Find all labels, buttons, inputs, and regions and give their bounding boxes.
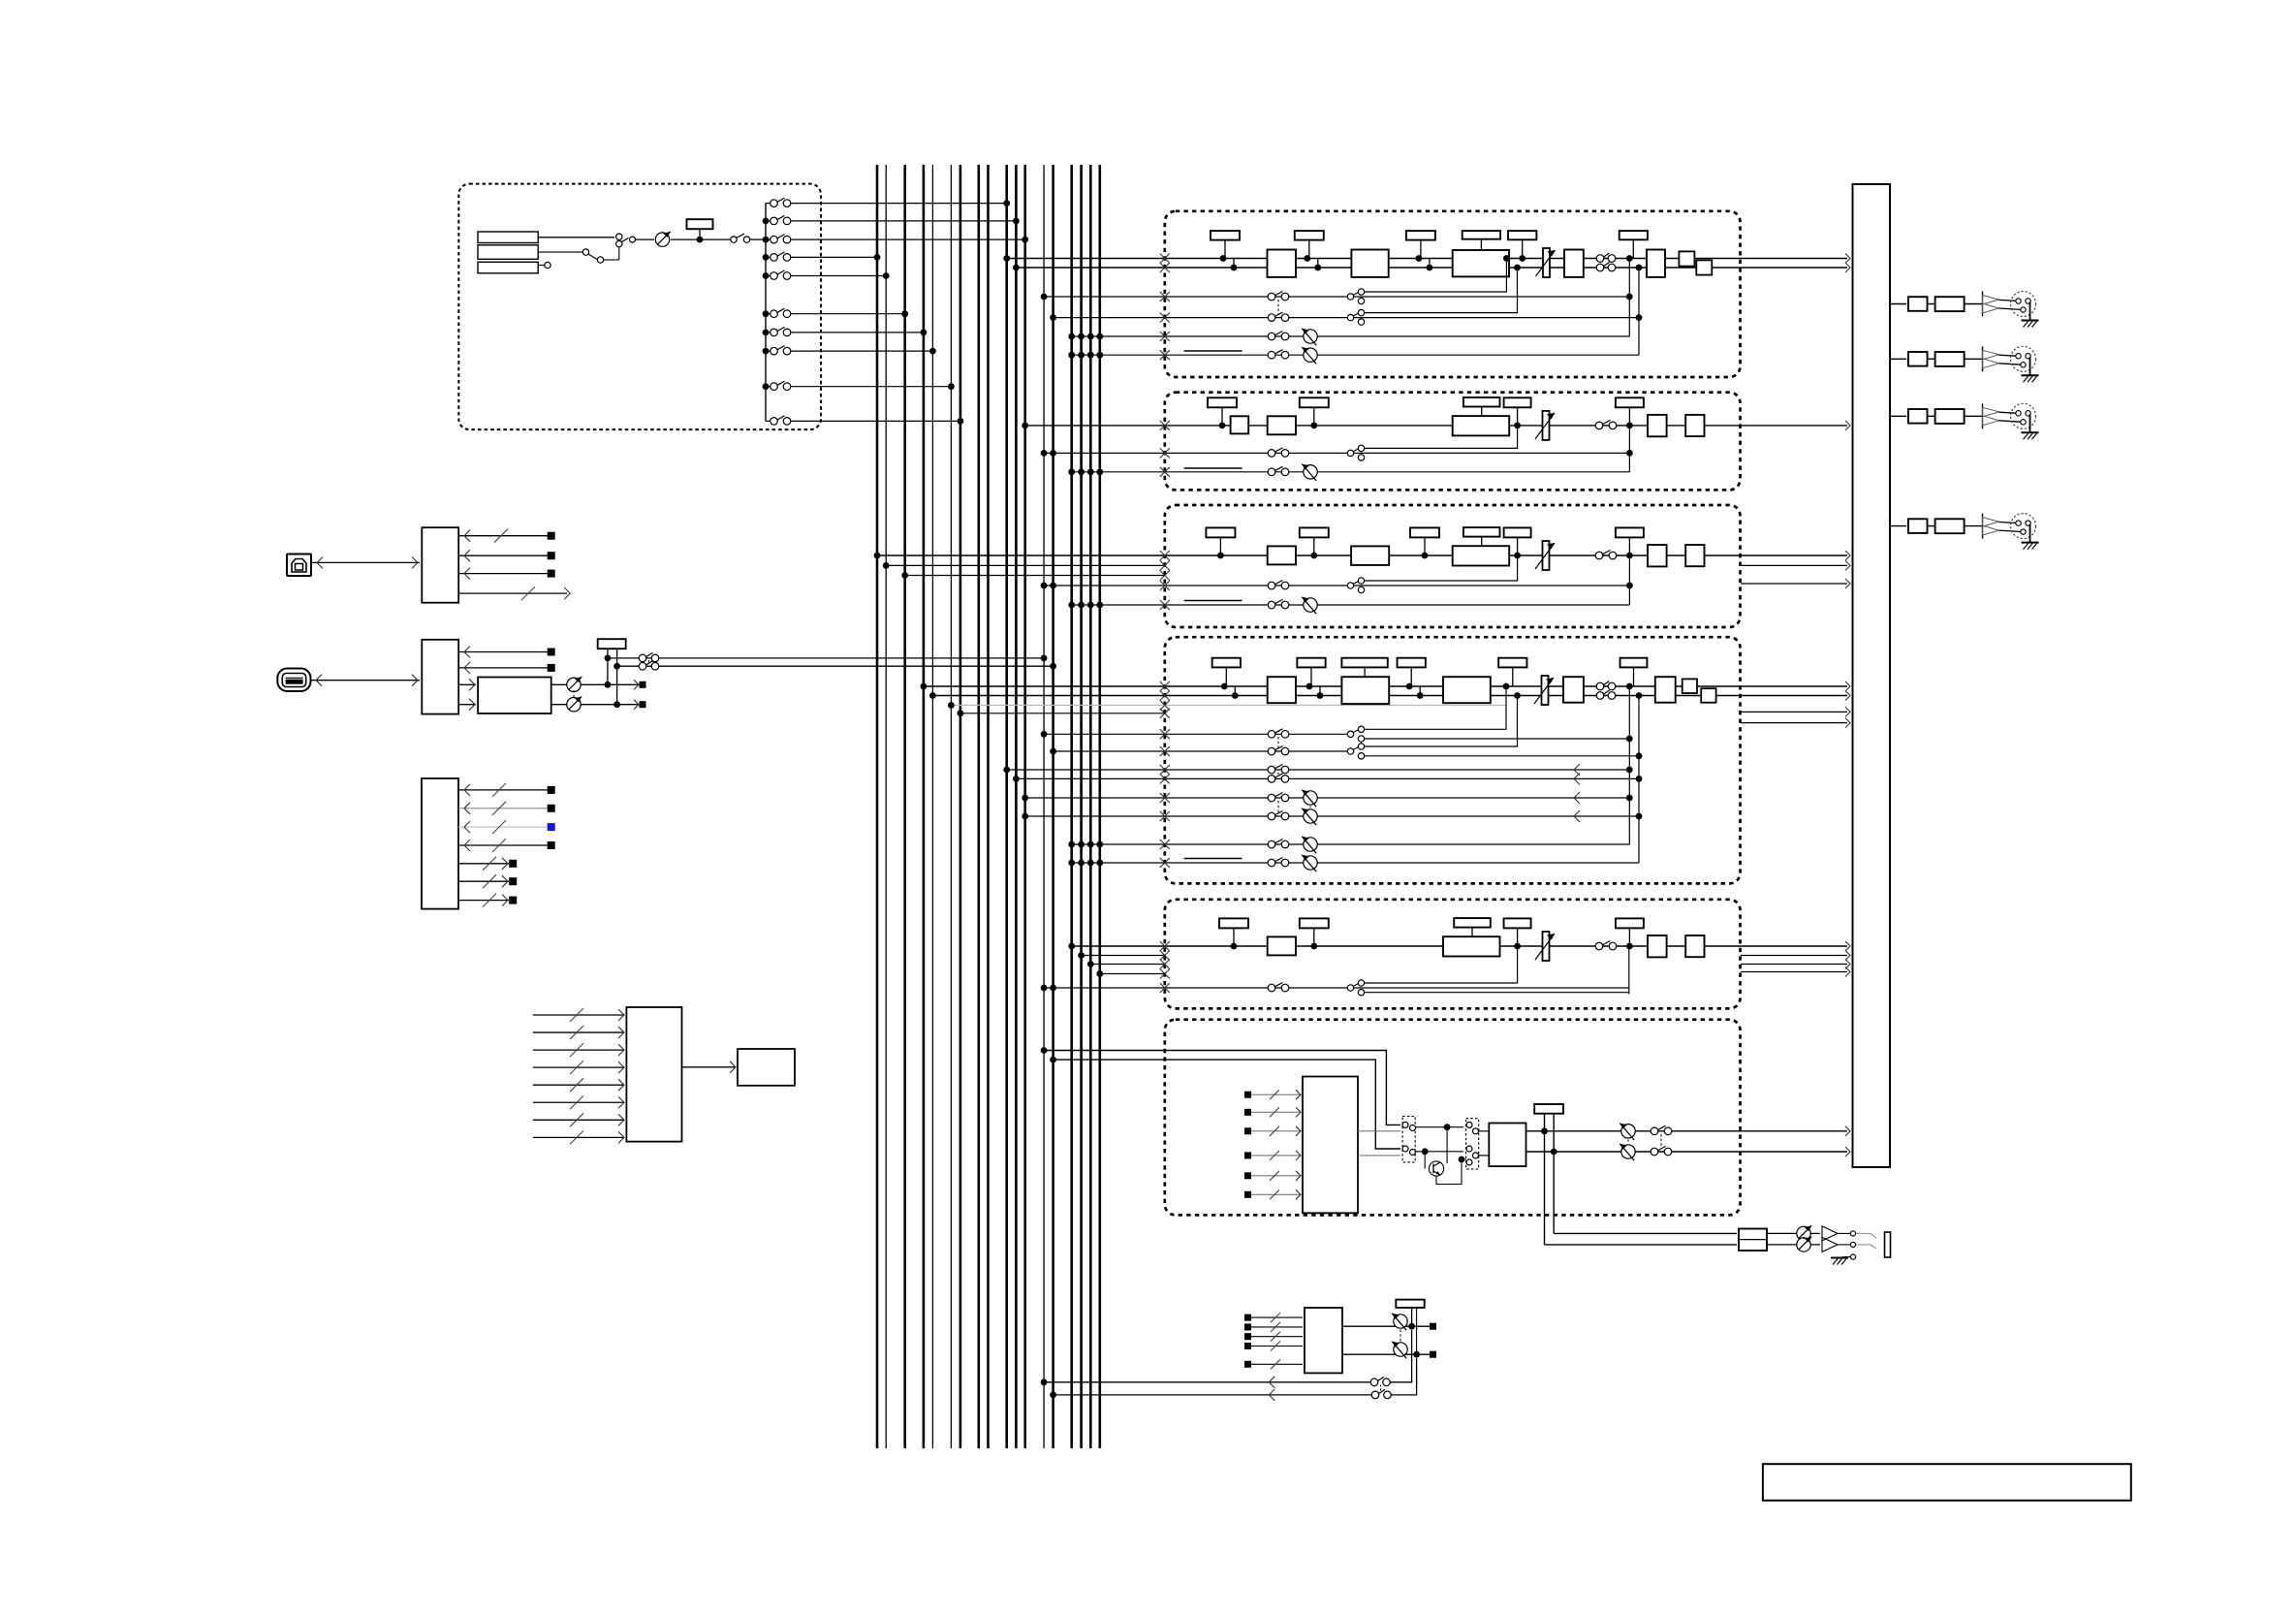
test point T xyxy=(1616,527,1644,537)
fader F1 xyxy=(1543,248,1550,277)
output driver 1 xyxy=(1982,292,1984,317)
collector vertical wire xyxy=(765,204,767,422)
switch strip6 b xyxy=(1651,1148,1658,1156)
wire U3 out R xyxy=(551,704,643,706)
wire strip4 auxA2 xyxy=(1054,750,1350,752)
block DSP xyxy=(1453,250,1509,276)
test point T xyxy=(1300,527,1329,537)
pot U9 a xyxy=(1394,1315,1407,1328)
wire T2 stem b xyxy=(616,649,618,704)
block OUT1 xyxy=(1648,545,1667,566)
pot U9 b xyxy=(1394,1343,1407,1356)
hp jack xyxy=(1885,1232,1891,1257)
switch S3 xyxy=(639,654,646,662)
fader F4 xyxy=(1542,676,1549,705)
switch strip4 A sw2 xyxy=(1268,747,1275,755)
wire bar to out 4 xyxy=(1890,525,1906,527)
wire strip3 main xyxy=(877,555,1847,556)
block DSP xyxy=(1453,546,1510,565)
output pot P3 xyxy=(567,698,581,712)
switch strip5 branch sw xyxy=(1347,985,1353,991)
wire strip4 auxB1 xyxy=(1007,769,1630,771)
wire strip5 dropper xyxy=(1628,946,1630,994)
wire T6 stem b xyxy=(1553,1114,1555,1234)
switch strip4 A sw1 xyxy=(1268,731,1275,739)
output pot P2 xyxy=(567,678,581,691)
switch strip3 aux sw xyxy=(1268,582,1275,589)
wire selector to level pot xyxy=(636,238,654,240)
hp pot b xyxy=(1797,1238,1810,1252)
wire U7 out 1 xyxy=(1358,1130,1400,1132)
block OUT xyxy=(1564,250,1584,277)
switch S4 xyxy=(639,662,646,670)
label underline strip4 xyxy=(1184,858,1242,860)
wire row 3 to bus xyxy=(791,238,1025,240)
dashed box monitor strip 6 xyxy=(1165,1020,1741,1216)
test point T xyxy=(1620,658,1648,668)
wire bar to out 1 xyxy=(1890,303,1906,305)
wire strip4 branch dn2 xyxy=(1365,755,1639,757)
wire strip2 pan xyxy=(1072,471,1630,473)
wire U2 out 2 xyxy=(458,667,550,669)
switch strip4 B sw2 xyxy=(1268,776,1275,783)
wire strip5 thru2 left xyxy=(1090,964,1165,966)
control block U4 xyxy=(422,778,458,909)
switch S pair strip4 xyxy=(1596,682,1604,690)
DAC U3 xyxy=(478,678,551,714)
wire strip1 dropper a xyxy=(1628,259,1630,337)
wire strip1 main R xyxy=(1016,267,1847,269)
switch return L xyxy=(1370,1378,1378,1386)
wire strip4 auxC2 xyxy=(1025,815,1639,817)
wire U1 out 2 xyxy=(458,555,550,556)
wire strip3 branch up xyxy=(1365,555,1518,581)
wire hp tip xyxy=(1838,1232,1850,1234)
test point T1 xyxy=(687,219,713,229)
wire U5 in 7 xyxy=(533,1119,624,1121)
mute transistor Q1 xyxy=(1429,1161,1443,1176)
wire U9 in 4 xyxy=(1248,1346,1304,1347)
test point T xyxy=(1406,231,1435,240)
test point T xyxy=(1616,397,1644,407)
wire strip4 pan L xyxy=(1072,843,1630,845)
test point T6 wide xyxy=(1534,1104,1563,1114)
wire bus V11 xyxy=(1015,165,1018,1448)
test point T xyxy=(1212,658,1241,668)
wire strip5 branch up xyxy=(1365,946,1518,983)
test point T wide xyxy=(1463,397,1500,407)
wire bus V3 xyxy=(903,165,906,1448)
test point T wide xyxy=(1454,918,1491,928)
test point T wide xyxy=(1463,527,1500,537)
dashed box input selector xyxy=(458,184,821,430)
wire U4 io 4 xyxy=(458,844,550,846)
wire U5 in 1 xyxy=(533,1014,624,1016)
switch strip4 B sw1 xyxy=(1268,766,1275,774)
source block R3 xyxy=(478,262,538,273)
test point T xyxy=(1398,658,1426,668)
wire strip4 auxC1 xyxy=(1025,797,1630,799)
wire strip3 dropper xyxy=(1628,555,1630,605)
wire U9 in 2 xyxy=(1248,1326,1304,1328)
wire out 3 b xyxy=(1965,415,1983,417)
wire headphone L xyxy=(1554,1232,1737,1234)
output driver 3 xyxy=(1982,403,1984,428)
switch S xyxy=(1595,552,1603,559)
test point T xyxy=(1498,658,1526,668)
wire strip6 in R xyxy=(1054,1060,1400,1149)
wire U2 to U3 b xyxy=(458,704,476,706)
wire strip4 branch up2 xyxy=(1365,696,1518,747)
wire sw6a out1 xyxy=(1415,1126,1463,1128)
wire U4 io 1 xyxy=(458,789,550,791)
block out filter 4 xyxy=(1935,519,1965,533)
wire row 2 to bus xyxy=(791,220,1017,222)
wire driver to xlr 3 hot xyxy=(1999,412,2019,413)
test point T xyxy=(1620,231,1648,239)
wire sw6b out1 xyxy=(1479,1130,1490,1132)
test point T xyxy=(1504,397,1531,407)
wire U7 in 2 xyxy=(1248,1111,1302,1113)
test point T xyxy=(1616,918,1644,928)
wire strip3 pan xyxy=(1072,604,1630,606)
wire bar to out 2 xyxy=(1890,358,1906,360)
switch strip4 A branch sw1 xyxy=(1347,731,1353,737)
test point T xyxy=(1300,397,1329,407)
wire strip5 aux xyxy=(1044,987,1629,989)
switch strip2 pan sw xyxy=(1268,468,1275,476)
wire T9 stem b xyxy=(1416,1308,1418,1354)
wire R1 output xyxy=(538,237,614,238)
wire sw6b out2 xyxy=(1479,1155,1490,1157)
wire U9 in 1 xyxy=(1248,1316,1304,1318)
wire hp amp out L xyxy=(1767,1232,1820,1234)
block comp xyxy=(1443,677,1491,703)
switch box SW6a xyxy=(1402,1117,1415,1162)
wire U9 out B xyxy=(1342,1353,1430,1355)
wire strip2 main xyxy=(1025,425,1847,427)
wire return L xyxy=(1044,1381,1372,1383)
wire T2 stem a xyxy=(607,649,609,684)
wire strip4 branch dn1 xyxy=(1365,738,1629,740)
wire to collector xyxy=(750,238,766,240)
switch strip1 branch sw2 xyxy=(1347,314,1353,320)
wire driver to xlr 3 cold xyxy=(1999,421,2024,423)
wire strip1 dropper b xyxy=(1638,268,1640,355)
wire bus V14 xyxy=(1052,165,1054,1448)
codec U2 xyxy=(422,640,458,714)
XLR output connector 2 xyxy=(2011,346,2036,371)
fader F xyxy=(1543,541,1550,570)
XLR output connector 1 xyxy=(2011,292,2036,317)
XLR output connector 3 xyxy=(2011,403,2036,428)
switch strip4 A branch sw2 xyxy=(1347,748,1353,754)
block EQ2 xyxy=(1351,250,1388,277)
wire bus V10 xyxy=(1005,165,1008,1448)
switch S xyxy=(1595,942,1603,950)
wire U1 out 4 xyxy=(458,592,567,594)
wire U7 in 4 xyxy=(1248,1155,1302,1157)
hp driver b xyxy=(1822,1237,1838,1252)
wire bus V18 xyxy=(1099,165,1102,1448)
switch strip6 a xyxy=(1651,1127,1658,1135)
wire headphone R xyxy=(1545,1244,1738,1246)
wire strip1 branch up1 xyxy=(1365,259,1506,293)
USB-A connector J2 xyxy=(277,669,310,692)
wire strip6 in L xyxy=(1044,1051,1400,1125)
wire strip4 auxA1 xyxy=(1044,733,1350,735)
wire pot to test point xyxy=(671,238,732,240)
amp block U8 xyxy=(1489,1124,1525,1167)
block out relay 1 xyxy=(1908,297,1928,311)
pan pot strip6 a xyxy=(1621,1125,1635,1138)
wire out 4 a xyxy=(1928,525,1935,527)
block out filter 2 xyxy=(1935,352,1965,366)
row switch SW10 xyxy=(766,420,771,422)
fader F xyxy=(1543,411,1550,440)
block small a xyxy=(1679,251,1694,266)
wire strip1 branch up2 xyxy=(1365,268,1518,313)
switch strip1 branch sw1 xyxy=(1347,294,1353,300)
block out relay 4 xyxy=(1908,519,1928,533)
wire row 10 to bus xyxy=(791,420,960,422)
wire strip4 pan R xyxy=(1072,862,1639,864)
wire strip1 pan R xyxy=(1072,354,1639,356)
wire strip4 exit4 xyxy=(1741,722,1847,724)
wire bus V12 xyxy=(1023,165,1026,1448)
wire U5 in 5 xyxy=(533,1084,624,1086)
wire bus V13 xyxy=(1043,165,1045,1448)
switch strip4 D sw1 xyxy=(1268,840,1275,848)
scan block U5 xyxy=(626,1007,681,1142)
selector switch S1 xyxy=(616,234,622,239)
test point T wide xyxy=(1463,231,1500,239)
pan pot strip4 C b xyxy=(1304,809,1317,823)
wire bus V4 xyxy=(923,165,926,1448)
block EQ1 xyxy=(1268,936,1296,955)
wire strip4 gray monitor xyxy=(951,705,1505,707)
wire strip4 auxB2 xyxy=(1016,777,1639,779)
wire strip5 thru2 right xyxy=(1741,964,1847,966)
DAC block U7 xyxy=(1303,1077,1358,1214)
USB interface U1 xyxy=(422,527,458,603)
switch strip5 aux sw xyxy=(1268,984,1275,992)
row switch SW1 xyxy=(766,203,771,205)
test point T xyxy=(1211,231,1240,240)
row switch SW2 xyxy=(766,220,771,222)
dashed box channel strip 4 xyxy=(1165,637,1741,883)
fader F xyxy=(1543,932,1550,961)
test point T xyxy=(1300,918,1329,928)
switch S xyxy=(1595,422,1603,429)
wire usb R to bus xyxy=(617,665,1054,667)
wire U7 out 2 xyxy=(1358,1155,1400,1157)
wire U5 in 8 xyxy=(533,1136,624,1138)
test point T xyxy=(1504,918,1531,928)
wire out 1 a xyxy=(1928,303,1935,305)
pan pot strip4 D b xyxy=(1304,856,1317,870)
wire row 6 to bus xyxy=(791,313,905,315)
test point T xyxy=(1297,658,1325,668)
wire strip4 main L xyxy=(924,685,1847,687)
block out relay 2 xyxy=(1908,352,1928,366)
wire out 2 a xyxy=(1928,358,1935,360)
wire driver to xlr 4 cold xyxy=(1999,530,2024,532)
wire Q1 collector xyxy=(1446,1127,1448,1163)
dashed box channel strip 5 xyxy=(1165,900,1741,1009)
block small b xyxy=(1696,260,1712,274)
wire U2 to U3 a xyxy=(458,683,476,685)
wire strip5 thru3 left xyxy=(1100,973,1165,975)
wire J1 to U1 xyxy=(311,561,420,563)
wire bus V5 xyxy=(931,165,933,1448)
wire U4 out 7 xyxy=(458,900,509,902)
wire J2 to U2 xyxy=(310,680,420,681)
wire out 4 b xyxy=(1965,525,1983,527)
block small b xyxy=(1701,688,1715,703)
wire strip4 dropper b xyxy=(1638,696,1640,864)
wire T6 stem a xyxy=(1544,1114,1546,1245)
output driver 2 xyxy=(1982,346,1984,371)
row switch SW6 xyxy=(766,313,771,315)
wire U4 io 3 xyxy=(458,826,550,828)
wire strip5 main xyxy=(1072,945,1847,947)
switch box SW6b xyxy=(1466,1119,1479,1169)
wire strip3 thru right xyxy=(1741,564,1847,566)
wire U9 in 3 xyxy=(1248,1336,1304,1338)
wire driver to xlr 4 hot xyxy=(1999,523,2019,523)
row switch SW9 xyxy=(766,386,771,388)
wire strip4 stub xyxy=(960,713,1165,714)
wire U9 in 5 xyxy=(1248,1363,1304,1365)
block EQ2 xyxy=(1351,546,1389,565)
headphone amp block xyxy=(1739,1229,1767,1252)
wire R3 stub xyxy=(538,265,544,267)
wire row 8 to bus xyxy=(791,350,933,352)
block small xyxy=(1231,416,1249,433)
source block R1 xyxy=(478,232,538,243)
wire U4 io 2 xyxy=(458,808,550,809)
wire driver to xlr 2 cold xyxy=(1999,364,2024,365)
wire U7 in 6 xyxy=(1248,1193,1302,1195)
wire bus V9 xyxy=(987,165,990,1448)
wire hp amp out R xyxy=(1767,1244,1820,1246)
switch return R xyxy=(1371,1391,1379,1399)
dashed box channel strip 1 xyxy=(1165,211,1741,377)
wire Q1 emitter xyxy=(1436,1159,1466,1185)
switch strip3 pan sw xyxy=(1268,601,1275,609)
pan pot strip4 D a xyxy=(1304,838,1317,851)
wire bus V8 xyxy=(977,165,980,1448)
wire strip4 main R xyxy=(932,695,1847,697)
wire U3 out L xyxy=(551,683,643,685)
block OUT2 xyxy=(1685,415,1704,436)
switch strip4 C sw1 xyxy=(1268,794,1275,802)
block EQ1 xyxy=(1268,677,1296,703)
hp pot a xyxy=(1797,1226,1810,1240)
wire R2 to switch xyxy=(538,251,582,253)
wire out 2 b xyxy=(1965,358,1983,360)
wire U7 in 5 xyxy=(1248,1175,1302,1177)
pan pot strip1 a xyxy=(1304,330,1317,343)
wire Q1 base xyxy=(1424,1152,1426,1169)
row switch SW5 xyxy=(766,275,771,277)
wire row 5 to bus xyxy=(791,275,887,277)
dashed box channel strip 2 xyxy=(1165,393,1741,491)
pan pot strip2 xyxy=(1304,465,1317,479)
wire strip6 out R xyxy=(1526,1151,1848,1153)
wire driver to xlr 1 cold xyxy=(1999,308,2024,310)
wire row 4 to bus xyxy=(791,256,878,258)
row switch SW8 xyxy=(766,350,771,352)
block big DSP xyxy=(1341,677,1389,704)
block U6 xyxy=(738,1049,795,1086)
block EQ1 xyxy=(1268,546,1296,564)
wire return R xyxy=(1054,1394,1373,1396)
pan pot strip1 b xyxy=(1304,348,1317,362)
wire strip4 branch up1 xyxy=(1365,686,1506,729)
block out relay 3 xyxy=(1908,409,1928,424)
wire strip1 pan L xyxy=(1072,335,1630,337)
wire strip1 aux2 xyxy=(1054,317,1639,319)
wire U7 in 1 xyxy=(1248,1093,1302,1095)
wire U1 out 3 xyxy=(458,573,550,575)
block OUT1 xyxy=(1648,415,1667,436)
wire U2 out 1 xyxy=(458,651,550,653)
wire strip3 stub xyxy=(905,575,1165,577)
block OUT2 xyxy=(1685,935,1704,957)
wire U5 in 3 xyxy=(533,1049,624,1051)
block OUT1 xyxy=(1648,935,1667,957)
test point T xyxy=(1295,231,1324,240)
row switch SW7 xyxy=(766,332,771,333)
test point T xyxy=(1219,918,1248,928)
block U9 xyxy=(1305,1308,1342,1373)
USB-B connector J1 xyxy=(287,555,311,577)
wire U4 out 5 xyxy=(458,863,509,865)
switch S2 xyxy=(731,237,737,242)
wire strip1 main L xyxy=(1007,258,1847,260)
row switch SW4 xyxy=(766,256,771,258)
switch strip1 pan sw1 xyxy=(1268,333,1275,340)
block small a xyxy=(1683,679,1697,693)
test point T xyxy=(1508,231,1536,239)
XLR output connector 4 xyxy=(2011,514,2036,539)
wire bus V7 xyxy=(959,165,962,1448)
block EQ1 xyxy=(1268,250,1297,277)
wire bus V16 xyxy=(1080,165,1083,1448)
wire out 3 a xyxy=(1928,415,1935,417)
wire hp ring xyxy=(1838,1244,1850,1246)
block OUT2 xyxy=(1685,545,1704,566)
switch strip3 branch sw xyxy=(1347,583,1353,588)
hp ground contact xyxy=(1850,1254,1855,1259)
wire strip4 exit3 xyxy=(1741,711,1847,713)
block OUT2 xyxy=(1647,250,1665,277)
wire out 1 b xyxy=(1965,303,1983,305)
wire strip5 branch dn xyxy=(1365,992,1629,994)
switch strip1 pan sw2 xyxy=(1268,351,1275,359)
wire bus V1 xyxy=(876,165,879,1448)
pan pot strip3 xyxy=(1304,598,1317,612)
block out filter 1 xyxy=(1935,297,1965,311)
test point T xyxy=(1504,527,1531,537)
wire U5 in 6 xyxy=(533,1101,624,1103)
pan pot strip6 b xyxy=(1621,1145,1635,1158)
test point T wide xyxy=(1341,658,1387,668)
hp driver a xyxy=(1822,1226,1838,1241)
wire T9 stem a xyxy=(1411,1308,1413,1326)
